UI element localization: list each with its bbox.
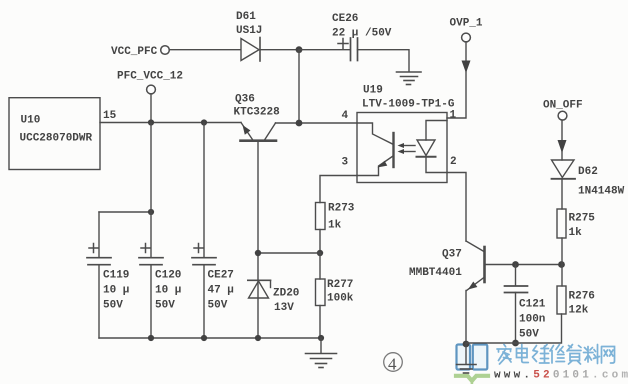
- junction zener column: [255, 250, 261, 256]
- watermark url: [494, 370, 628, 382]
- svg-text:R277: R277: [327, 279, 353, 291]
- svg-text:U10: U10: [21, 115, 41, 127]
- svg-text:CE26: CE26: [332, 13, 358, 25]
- svg-text:1k: 1k: [328, 220, 342, 232]
- svg-text:VCC_PFC: VCC_PFC: [111, 46, 158, 58]
- svg-text:MMBT4401: MMBT4401: [409, 267, 462, 279]
- node ON_OFF: [543, 100, 583, 121]
- junction bottom rail ground: [318, 335, 324, 341]
- svg-text:OVP_1: OVP_1: [450, 18, 483, 30]
- arrow OVP_1: [462, 61, 471, 74]
- wire Q37 emitter down: [465, 291, 467, 344]
- junction Q37 emitter ground: [463, 341, 470, 348]
- svg-text:1N4148W: 1N4148W: [578, 186, 625, 198]
- junction C121 top: [512, 261, 519, 268]
- junction R275 R276 node: [558, 261, 565, 268]
- node VCC_PFC: [111, 46, 169, 58]
- wire node B to R277: [319, 253, 321, 279]
- watermark: [456, 345, 488, 384]
- wire R275 to node: [561, 238, 563, 265]
- svg-text:2: 2: [450, 156, 457, 168]
- zener ZD20: [248, 280, 300, 314]
- svg-text:C119: C119: [103, 270, 129, 282]
- junction bottom CE27: [201, 335, 207, 341]
- svg-text:www.520101.com: www.520101.com: [494, 370, 628, 382]
- wire CE26 to ground: [358, 50, 410, 71]
- wire Q37 base: [486, 264, 562, 266]
- junction rail C120: [148, 119, 154, 125]
- char liao: [584, 345, 600, 364]
- svg-text:C120: C120: [155, 270, 181, 282]
- ground bottom rail: [306, 338, 337, 368]
- svg-text:100n: 100n: [519, 314, 545, 326]
- svg-text:4: 4: [342, 110, 349, 122]
- capacitor C120: [139, 123, 181, 339]
- IC U10: [9, 98, 100, 170]
- svg-text:Q37: Q37: [442, 249, 462, 261]
- wire Q36 base column: [257, 142, 259, 339]
- svg-text:15: 15: [103, 110, 117, 122]
- junction node B: [317, 250, 323, 256]
- svg-text:ON_OFF: ON_OFF: [543, 100, 583, 112]
- junction bottom ZD20: [255, 335, 261, 341]
- svg-text:50V: 50V: [208, 300, 228, 312]
- arrow ON_OFF: [558, 140, 567, 153]
- resistor R273: [316, 203, 355, 232]
- svg-text:13V: 13V: [274, 302, 294, 314]
- wire ON_OFF to D62: [561, 120, 563, 160]
- capacitor C119: [87, 212, 129, 338]
- svg-text:1k: 1k: [569, 227, 583, 239]
- svg-text:3: 3: [342, 157, 349, 169]
- wire bottom right: [466, 314, 562, 343]
- char dian: [517, 345, 529, 363]
- char zi: [567, 345, 581, 365]
- ground Q37 emitter: [457, 344, 477, 373]
- wire PFC_VCC_12 stub: [150, 94, 152, 123]
- junction jog: [148, 209, 154, 215]
- svg-text:22 µ /50V: 22 µ /50V: [332, 28, 392, 40]
- wire node B to zener column: [258, 252, 320, 254]
- capacitor C121: [505, 265, 546, 344]
- node PFC_VCC_12: [117, 71, 183, 94]
- ground under CE26: [397, 72, 422, 85]
- svg-text:50V: 50V: [155, 300, 175, 312]
- wire VCC_PFC to D61: [170, 49, 241, 51]
- svg-text:4: 4: [388, 355, 397, 374]
- svg-text:R273: R273: [328, 203, 355, 215]
- wire D62 to R275: [561, 179, 563, 209]
- optocoupler U19: [357, 85, 455, 183]
- wire main rail left: [100, 122, 241, 124]
- svg-text:KTC3228: KTC3228: [234, 107, 281, 119]
- wire pin 3 to R273: [320, 176, 357, 203]
- transistor Q37: [409, 241, 485, 291]
- char wang: [602, 347, 615, 364]
- resistor R276: [557, 286, 595, 317]
- char jia: [497, 345, 511, 365]
- svg-text:10 µ: 10 µ: [155, 285, 181, 297]
- svg-text:D62: D62: [578, 166, 598, 178]
- resistor R277: [316, 279, 354, 306]
- svg-text:U19: U19: [363, 85, 383, 97]
- wire C119 jog to C120 column: [99, 211, 151, 213]
- node OVP_1: [450, 18, 483, 42]
- svg-text:C121: C121: [519, 299, 546, 311]
- wire R273 to node B: [319, 230, 321, 254]
- wire R277 to bottom rail: [319, 306, 321, 339]
- wire bottom rail: [99, 337, 321, 339]
- svg-text:1: 1: [450, 110, 457, 122]
- watermark text: [497, 345, 615, 365]
- svg-text:R276: R276: [569, 291, 595, 303]
- junction collector node: [296, 120, 303, 127]
- junction node A: [296, 46, 303, 53]
- svg-text:D61: D61: [236, 11, 256, 23]
- svg-text:US1J: US1J: [236, 25, 262, 37]
- page marker 4: [384, 353, 403, 374]
- svg-text:LTV-1009-TP1-G: LTV-1009-TP1-G: [362, 99, 455, 111]
- svg-text:UCC28070DWR: UCC28070DWR: [20, 133, 93, 145]
- junction C121 bottom: [512, 340, 519, 347]
- capacitor CE26: [332, 13, 392, 61]
- junction rail CE27: [201, 119, 207, 125]
- svg-text:50V: 50V: [103, 300, 123, 312]
- wire OVP_1 to pin 1: [447, 42, 466, 118]
- wire node A to CE26: [299, 49, 350, 51]
- diode D62: [552, 160, 625, 198]
- resistor R275: [557, 209, 595, 239]
- wire node to R276: [561, 265, 563, 287]
- svg-text:CE27: CE27: [208, 270, 234, 282]
- diode D61: [236, 11, 262, 61]
- capacitor CE27: [192, 123, 234, 339]
- wire rail right (collector to U19 pin4): [276, 122, 358, 124]
- char xiu: [550, 345, 565, 364]
- svg-text:10 µ: 10 µ: [103, 285, 129, 297]
- wire D61 to node A: [260, 49, 299, 51]
- junction bottom C120: [148, 335, 154, 341]
- char wei: [533, 345, 550, 364]
- wire pin 2 to Q37 collector: [447, 173, 466, 242]
- svg-text:50V: 50V: [519, 329, 539, 341]
- svg-text:R275: R275: [569, 213, 596, 225]
- transistor Q36: [234, 94, 281, 141]
- svg-text:Q36: Q36: [235, 94, 255, 106]
- svg-text:ZD20: ZD20: [273, 288, 299, 300]
- svg-text:12k: 12k: [569, 305, 589, 317]
- svg-text:100k: 100k: [327, 293, 354, 305]
- svg-text:47 µ: 47 µ: [208, 285, 234, 297]
- wire node A down to collector rail: [298, 50, 300, 123]
- svg-text:PFC_VCC_12: PFC_VCC_12: [117, 71, 183, 83]
